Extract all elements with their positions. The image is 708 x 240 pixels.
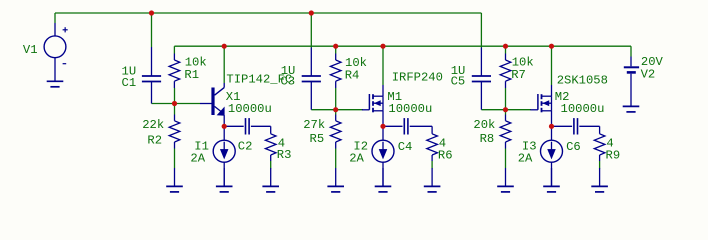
- svg-text:C2: C2: [238, 140, 253, 154]
- svg-text:IRFP240: IRFP240: [392, 71, 443, 85]
- svg-text:C3: C3: [280, 74, 295, 88]
- svg-text:10000u: 10000u: [561, 102, 605, 116]
- svg-text:R5: R5: [310, 132, 325, 146]
- svg-text:C5: C5: [451, 74, 466, 88]
- svg-text:2A: 2A: [349, 152, 364, 166]
- svg-text:R6: R6: [438, 148, 453, 162]
- svg-text:R8: R8: [480, 132, 495, 146]
- svg-text:V2: V2: [641, 68, 656, 82]
- svg-text:R4: R4: [345, 68, 360, 82]
- svg-text:20k: 20k: [473, 118, 495, 132]
- svg-text:R2: R2: [147, 134, 162, 148]
- svg-text:27k: 27k: [303, 118, 325, 132]
- svg-text:R1: R1: [184, 68, 199, 82]
- svg-text:R7: R7: [511, 68, 526, 82]
- svg-text:C4: C4: [398, 140, 413, 154]
- svg-text:2A: 2A: [518, 152, 533, 166]
- svg-text:R3: R3: [277, 148, 292, 162]
- svg-text:10000u: 10000u: [388, 102, 432, 116]
- svg-text:R9: R9: [606, 148, 621, 162]
- svg-text:C1: C1: [122, 76, 137, 90]
- svg-text:C6: C6: [566, 140, 581, 154]
- svg-text:2A: 2A: [190, 152, 205, 166]
- svg-text:10000u: 10000u: [228, 102, 272, 116]
- svg-text:22k: 22k: [142, 118, 164, 132]
- svg-text:V1: V1: [23, 43, 38, 57]
- svg-text:2SK1058: 2SK1058: [557, 74, 608, 88]
